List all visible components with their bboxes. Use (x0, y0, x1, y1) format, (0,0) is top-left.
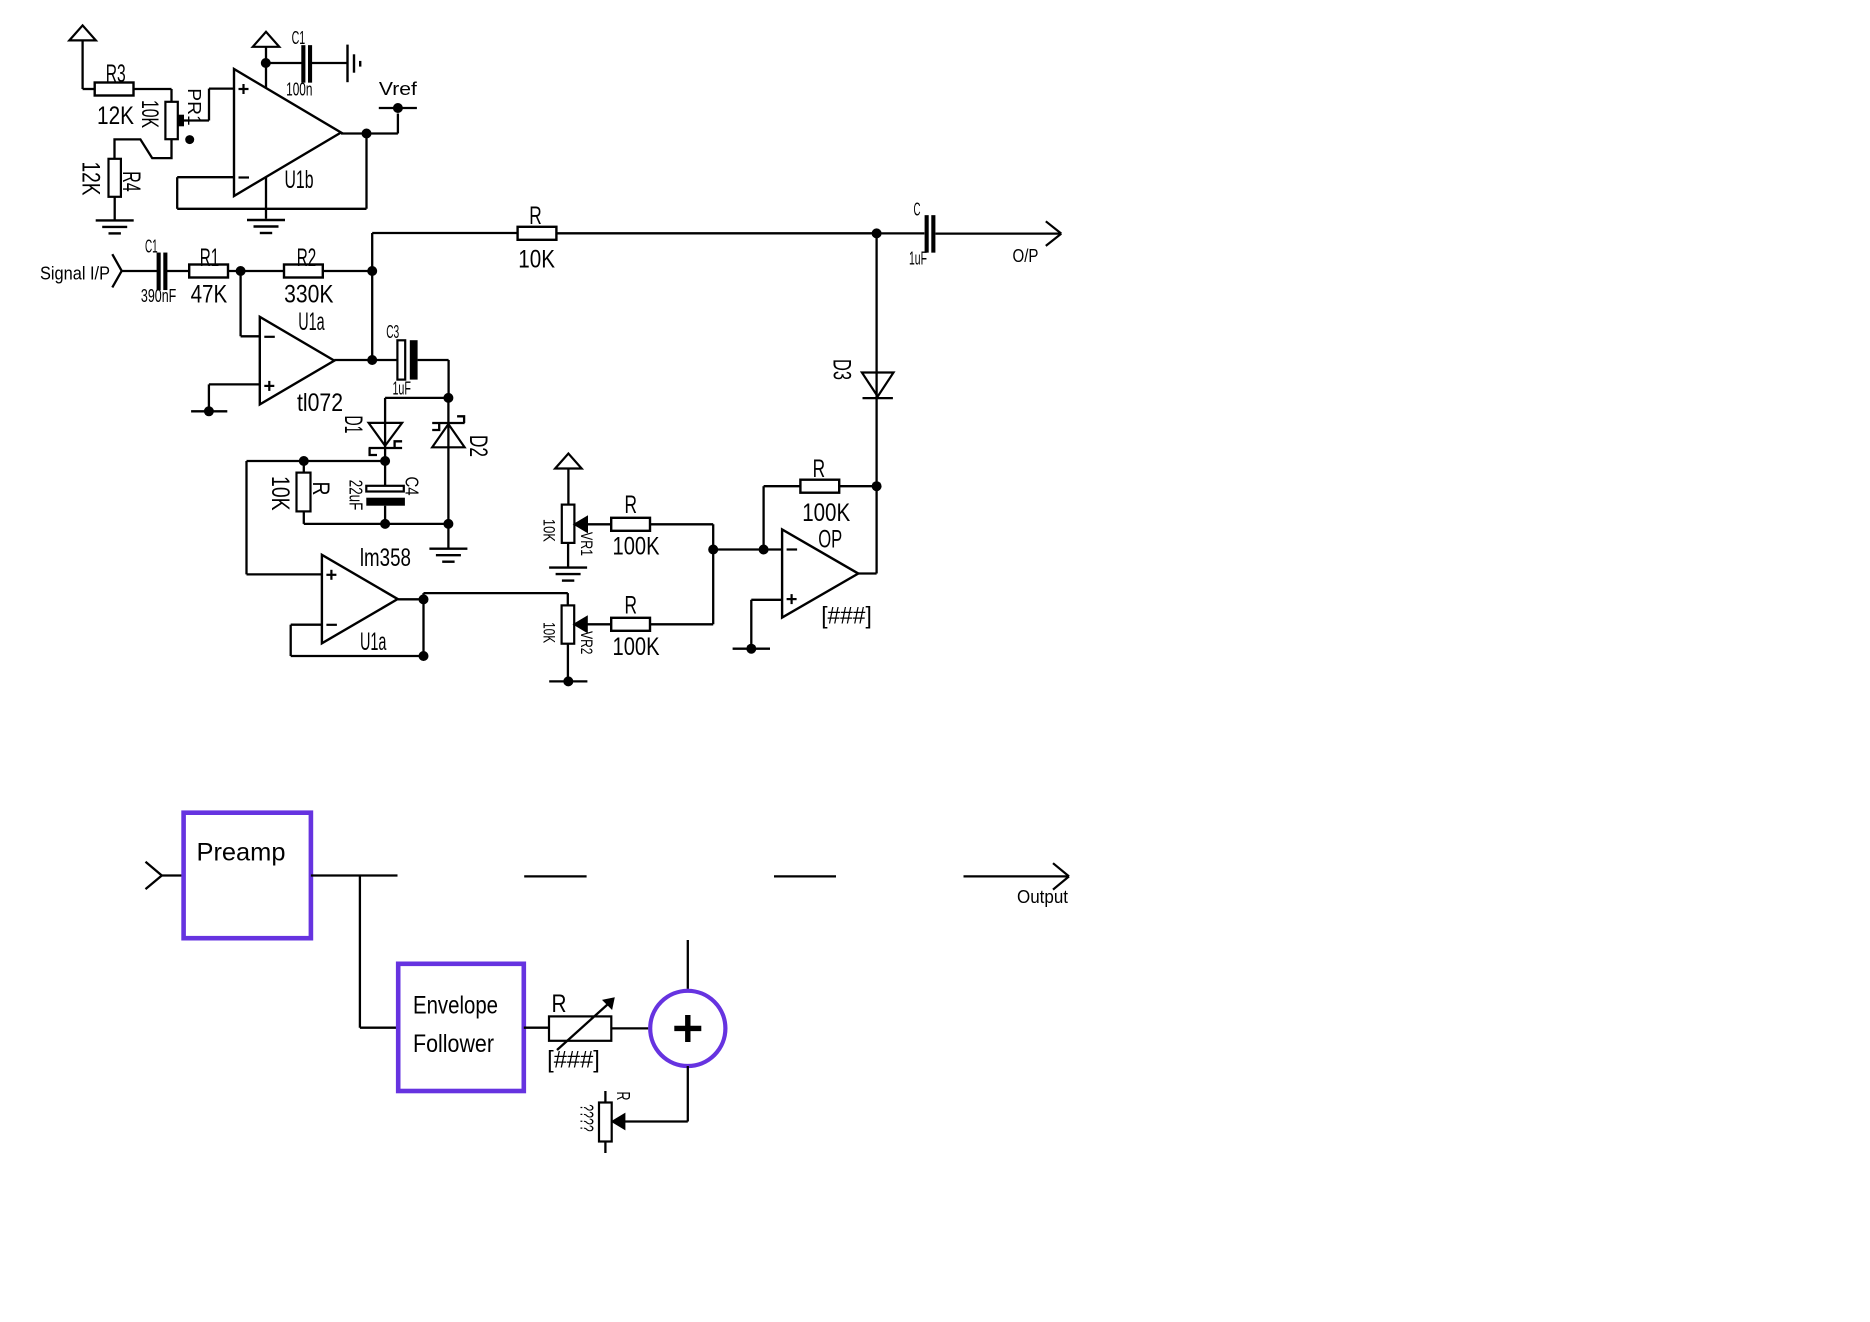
svg-text:R: R (624, 592, 637, 620)
svg-text:U1a: U1a (298, 308, 324, 336)
resistor R 10K (top row) (518, 202, 557, 274)
wire VR2 bottom to net stub (567, 644, 569, 682)
wire R3 to PR1 top (133, 89, 171, 102)
svg-text:C1: C1 (145, 237, 158, 257)
potentiometer R ???? (bottom) (577, 1091, 634, 1153)
svg-text:R: R (613, 1092, 633, 1101)
trimmer PR1 (136, 88, 204, 139)
wire C1 to ground (312, 62, 348, 64)
potentiometer VR2 10K (540, 605, 597, 654)
svg-text:C3: C3 (386, 322, 399, 342)
net stub below U1a + input (191, 406, 227, 416)
svg-text:1uF: 1uF (392, 379, 411, 399)
power arrow above VR1 (555, 454, 582, 505)
resistor R1 (189, 244, 228, 309)
svg-text:100K: 100K (613, 532, 660, 560)
wire VR2 wiper to R 100K (587, 623, 612, 625)
junction above R 10K vertical (299, 456, 309, 466)
wire left end down to lm358 + input (247, 461, 322, 574)
svg-text:10K: 10K (540, 622, 559, 643)
svg-text:C: C (914, 200, 921, 220)
resistor R 100K (VR2 row) (611, 592, 660, 661)
svg-text:390nF: 390nF (141, 286, 176, 306)
net stub below VR2 (549, 676, 587, 686)
svg-text:Envelope: Envelope (413, 992, 498, 1020)
wire node to D1 (385, 397, 448, 399)
junction lm358 output (419, 594, 429, 604)
wire into summing circle top (687, 940, 689, 989)
svg-text:10K: 10K (540, 519, 559, 543)
wire junction down to U1a - input (241, 271, 260, 336)
wire EF to variable resistor R (524, 1027, 549, 1029)
svg-text:47K: 47K (191, 281, 228, 309)
svg-text:U1a: U1a (360, 628, 387, 656)
op-amp lm358 U1a (322, 544, 411, 656)
junction OP feedback right (872, 481, 882, 491)
resistor R 10K (vertical) (266, 461, 334, 524)
net stub Vref (379, 103, 417, 113)
wire dash segment 1 (524, 875, 586, 877)
wire power to C1 (266, 62, 302, 64)
svg-text:Preamp: Preamp (197, 839, 286, 867)
wire U1b output to Vref node (341, 114, 398, 134)
svg-text:[###]: [###] (547, 1047, 600, 1074)
svg-text:D2: D2 (464, 435, 492, 457)
block Envelope Follower (398, 964, 524, 1091)
ground below R4 (96, 220, 134, 233)
junction feedback node (367, 266, 377, 276)
ground right of C1 (rotated) (348, 45, 361, 83)
wire C1 to R1 (167, 270, 190, 272)
label Vref (379, 79, 418, 99)
svg-text:D3: D3 (828, 359, 856, 380)
power arrow VCC (top-left) (69, 25, 96, 89)
wire PR1 wiper to U1b + input (184, 89, 234, 121)
wire U1a output (334, 359, 397, 361)
svg-text:R: R (529, 202, 542, 230)
wire U1b feedback loop (177, 134, 366, 209)
wire bottom rail (304, 523, 449, 525)
svg-text:O/P: O/P (1013, 246, 1039, 266)
wire R 100K to summing vertical (650, 524, 713, 624)
ground below U1b (247, 220, 285, 233)
op-amp U1b (234, 69, 341, 196)
block Preamp (184, 813, 311, 939)
svg-text:100n: 100n (286, 80, 312, 100)
op-amp OP (782, 499, 872, 630)
svg-text:10K: 10K (518, 246, 555, 274)
junction U1b output (362, 129, 372, 139)
svg-text:????: ???? (577, 1104, 597, 1132)
wire VR1 wiper to R 100K (587, 523, 612, 525)
wire R4 to ground (114, 197, 116, 220)
wire PR1 bottom to R4 (S-bend) (115, 139, 172, 159)
potentiometer VR1 10K (540, 505, 597, 556)
variable resistor R [###] (547, 990, 613, 1074)
wire R1 to R2 with junction (228, 270, 284, 272)
svg-text:R2: R2 (297, 244, 317, 272)
wire tee down to Envelope Follower (360, 876, 398, 1028)
wire lm358 feedback (291, 625, 424, 656)
svg-text:12K: 12K (97, 102, 134, 130)
resistor R2 (284, 244, 334, 309)
diode D2 (schottky, pointing up) (432, 398, 492, 524)
node dot near PR1 (185, 135, 194, 144)
svg-text:tl072: tl072 (297, 389, 343, 417)
svg-text:Output: Output (1017, 887, 1068, 907)
svg-text:R: R (552, 990, 567, 1018)
diode D3 (pointing down) (828, 233, 894, 573)
input pin (block diagram) (146, 862, 184, 889)
wire feedback node vertical (371, 233, 373, 360)
svg-text:VR2: VR2 (577, 631, 596, 654)
op-amp U1a (tl072) (260, 308, 343, 417)
svg-text:22uF: 22uF (346, 480, 366, 511)
junction OP feedback tap (759, 545, 769, 555)
resistor R3 (95, 60, 135, 130)
junction lm358 feedback bottom (419, 651, 429, 661)
junction summing node (708, 545, 718, 555)
svg-text:D1: D1 (339, 416, 367, 434)
junction D2 bottom (443, 519, 453, 529)
svg-text:12K: 12K (76, 162, 104, 196)
svg-text:R3: R3 (106, 60, 126, 88)
output arrow O/P (936, 221, 1062, 266)
capacitor C1 100n (286, 28, 312, 100)
power arrow above U1b (253, 32, 280, 88)
wire C3 to D1/D2 node (418, 360, 449, 398)
svg-text:100K: 100K (613, 633, 660, 661)
wire dash segment 2 (774, 875, 836, 877)
svg-text:R: R (624, 491, 637, 519)
junction output node (872, 228, 882, 238)
capacitor C 1uF (output) (877, 200, 936, 269)
wire U1a + input to net stub (209, 384, 260, 411)
svg-text:[###]: [###] (821, 603, 872, 630)
wire R2 to feedback node (322, 270, 372, 272)
ground below VR1 (549, 568, 587, 581)
svg-text:U1b: U1b (285, 166, 314, 194)
svg-text:R: R (307, 482, 334, 496)
svg-text:10K: 10K (136, 100, 163, 128)
capacitor C3 1uF (polarized) (386, 322, 417, 399)
junction above D2 (443, 393, 453, 403)
net stub below OP + input (733, 644, 770, 654)
junction U1b power / C1 (261, 58, 271, 68)
wire R 10K to output node (556, 232, 876, 234)
wire summing circle bottom to pot wiper (624, 1066, 687, 1122)
capacitor C4 22uF (electrolytic) (346, 461, 422, 524)
wire R to summing circle (611, 1027, 648, 1029)
svg-text:1uF: 1uF (909, 249, 927, 269)
wire Preamp output (311, 874, 398, 876)
wire summing node to OP - input (713, 548, 782, 550)
wire R 100K (VR2) to summing vertical (650, 623, 713, 625)
svg-text:R4: R4 (117, 171, 145, 191)
wire VCC to R3 (83, 88, 95, 90)
svg-text:Vref: Vref (379, 79, 418, 99)
svg-text:330K: 330K (284, 281, 334, 309)
svg-text:100K: 100K (802, 499, 850, 527)
svg-text:C4: C4 (402, 477, 422, 496)
svg-text:C1: C1 (292, 28, 306, 48)
wire U1b V- pin to ground (265, 177, 267, 219)
svg-text:VR1: VR1 (577, 532, 596, 556)
svg-text:Signal I/P: Signal I/P (40, 264, 110, 284)
svg-text:lm358: lm358 (360, 544, 411, 572)
svg-text:R1: R1 (200, 244, 220, 272)
output arrow (block diagram) (964, 863, 1070, 907)
ground below D2 (429, 549, 467, 562)
wire OP output to D3 column (858, 572, 876, 574)
svg-text:10K: 10K (266, 476, 294, 511)
junction C4 bottom (380, 519, 390, 529)
junction D1/C4/R node (380, 456, 390, 466)
wire VR1 to ground (567, 543, 569, 568)
wire top row to R 10K (372, 232, 518, 234)
diode D1 (schottky, pointing down) (339, 398, 402, 461)
input pin Signal I/P (40, 254, 157, 287)
wire OP + input to net stub (751, 600, 782, 649)
summing junction circle (650, 991, 725, 1066)
resistor R4 (76, 159, 145, 197)
junction R1/R2 node (236, 266, 246, 276)
wire horizontal D1 node to left (247, 460, 386, 462)
resistor R 100K (OP feedback) (764, 455, 877, 550)
junction U1a output (367, 355, 377, 365)
svg-text:R: R (813, 455, 826, 483)
capacitor C1 390nF (141, 237, 176, 307)
resistor R 100K (VR1 row) (611, 491, 660, 560)
wire lm358 output to VR2 (398, 593, 568, 656)
svg-text:OP: OP (818, 526, 842, 554)
svg-text:Follower: Follower (413, 1030, 494, 1058)
wire D2 node to ground (447, 524, 449, 549)
